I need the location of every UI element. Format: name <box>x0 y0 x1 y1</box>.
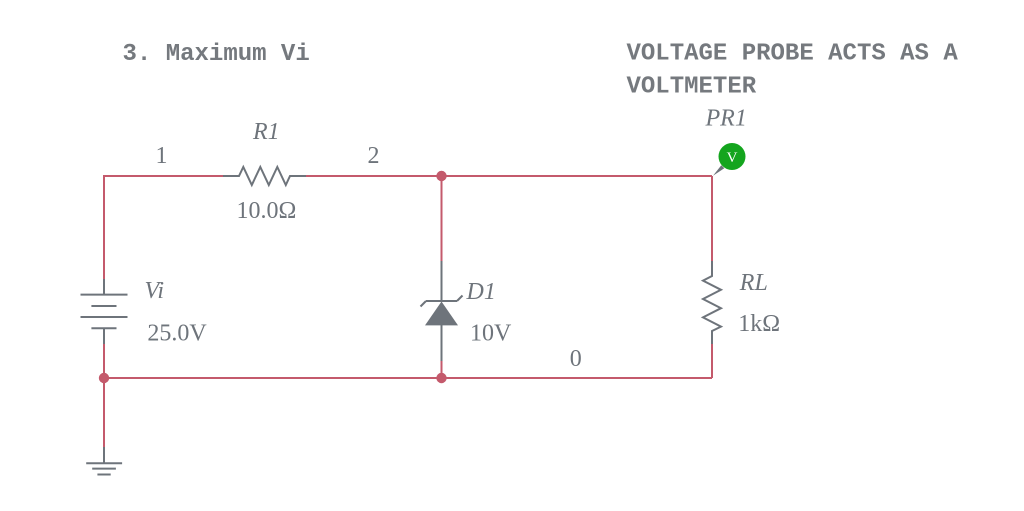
svg-text:10.0Ω: 10.0Ω <box>237 198 297 224</box>
svg-text:V: V <box>727 150 738 166</box>
svg-text:D1: D1 <box>466 279 496 305</box>
svg-text:1kΩ: 1kΩ <box>738 311 780 337</box>
svg-text:10V: 10V <box>470 321 512 347</box>
svg-text:25.0V: 25.0V <box>147 321 207 347</box>
svg-text:R1: R1 <box>252 119 280 145</box>
svg-text:Vi: Vi <box>145 278 165 304</box>
svg-text:RL: RL <box>739 270 768 296</box>
svg-text:2: 2 <box>368 143 380 169</box>
svg-text:VOLTMETER: VOLTMETER <box>627 74 757 101</box>
svg-text:VOLTAGE PROBE ACTS AS A: VOLTAGE PROBE ACTS AS A <box>627 41 959 68</box>
svg-text:1: 1 <box>156 143 168 169</box>
svg-text:PR1: PR1 <box>705 106 747 132</box>
svg-text:3. Maximum Vi: 3. Maximum Vi <box>123 41 310 68</box>
svg-text:0: 0 <box>570 346 582 372</box>
